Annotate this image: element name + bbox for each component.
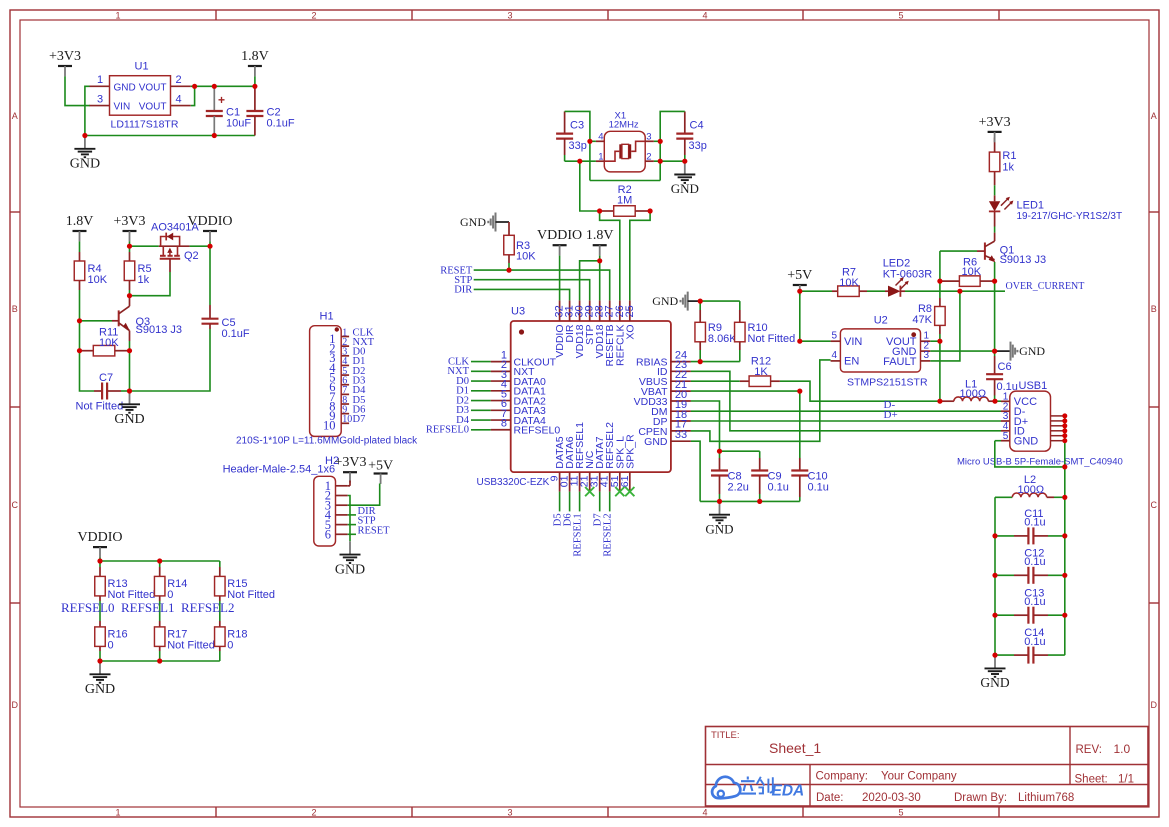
svg-text:210S-1*10P L=11.6MMGold-plated: 210S-1*10P L=11.6MMGold-plated black — [236, 436, 418, 447]
op-amp U3 USB3320C-EZK body — [477, 306, 671, 489]
capacitor C6 0.1u — [986, 351, 1018, 401]
USB1 shield pin 4 — [1051, 430, 1065, 432]
svg-text:1.8V: 1.8V — [241, 49, 269, 64]
wire GND33 down — [691, 441, 700, 501]
wire C4 top loop — [660, 111, 685, 180]
wire U1 VOUT rail — [191, 85, 255, 87]
node D3 (U3) — [456, 405, 469, 416]
U3 pin 20 (VDD33) — [634, 389, 691, 408]
junction dot 24 at (599.6,211) — [597, 208, 602, 213]
wire U3 pin 13 down — [599, 492, 601, 512]
svg-text:1k: 1k — [1002, 162, 1014, 174]
svg-text:REFSEL1: REFSEL1 — [121, 600, 174, 615]
junction dot 5 at (214.3,135.5) — [212, 133, 217, 138]
resistor R1 1k — [989, 138, 1016, 186]
svg-text:2: 2 — [311, 10, 316, 20]
junction dot 34 at (799.8,341.2) — [797, 339, 802, 344]
junction dot 20 at (660.2,141.3) — [658, 139, 663, 144]
wire VBUS to R12 — [691, 380, 740, 382]
wire GND2 out — [930, 350, 994, 352]
inductor L2 100 — [995, 474, 1065, 497]
svg-text:OVER_CURRENT: OVER_CURRENT — [1006, 281, 1085, 292]
U3 pin 11 (REFSEL1) — [569, 422, 587, 492]
resistor R3 10K — [504, 222, 536, 270]
svg-text:D: D — [12, 700, 19, 710]
node NXT (H1) — [353, 337, 375, 348]
svg-text:100Ω: 100Ω — [960, 388, 987, 400]
wire USB shield rail — [1064, 416, 1066, 655]
svg-text:+3V3: +3V3 — [49, 49, 81, 64]
svg-text:3: 3 — [507, 807, 512, 817]
junction dot 55 at (995,655.1) — [992, 653, 997, 658]
svg-text:0.1u: 0.1u — [1024, 556, 1045, 568]
node REFSEL1 (U3 bottom) — [573, 513, 584, 556]
wire DP line D+ — [691, 420, 1001, 422]
resistor R5 1k — [124, 246, 151, 296]
svg-text:+3V3: +3V3 — [334, 455, 366, 470]
USB1 pin 3 (D+) — [1001, 411, 1028, 428]
resistor R4 10K — [74, 252, 107, 290]
ground GND (C8) — [705, 501, 733, 536]
node D1 (H1) — [353, 356, 366, 367]
junction dot 6 at (79.5,320.8) — [77, 318, 82, 323]
wire +3V3 to U1 VIN — [65, 76, 90, 105]
capacitor C3 33p — [556, 111, 587, 161]
node NXT (U3) — [447, 366, 469, 377]
U3 pin 5 (DATA2) — [491, 388, 546, 407]
junction dot 54 at (1064.8,615.2) — [1062, 613, 1067, 618]
junction dot 14 at (159.7,561) — [157, 558, 162, 563]
junction dot 48 at (1064.8,497.3) — [1062, 495, 1067, 500]
resistor R18 0 — [215, 621, 248, 661]
junction dot 1 at (84.9,135.5) — [82, 133, 87, 138]
EasyEDA logo — [712, 777, 804, 800]
node OVER_CURRENT — [1006, 281, 1085, 292]
power +3V3 (R1) — [979, 115, 1011, 142]
U3 pin 32 (VDDIO) — [554, 300, 567, 357]
no-connect pin 16 — [625, 487, 634, 496]
svg-text:1: 1 — [115, 10, 120, 20]
svg-text:0.1u: 0.1u — [768, 482, 789, 494]
svg-text:3: 3 — [507, 10, 512, 20]
U3 pin 33 (GND) — [644, 429, 691, 448]
wire USB GND pin5 — [995, 441, 1065, 467]
crystal X1 12MHz body — [598, 111, 651, 172]
svg-text:C3: C3 — [570, 120, 584, 132]
node REFSEL0 (U3) — [426, 425, 469, 436]
wire VDDIO stem — [209, 241, 211, 246]
junction dot 28 at (799.8,391.1) — [797, 389, 802, 394]
junction dot 50 at (1064.8,535.9) — [1062, 533, 1067, 538]
svg-text:GND: GND — [980, 675, 1009, 690]
resistor R6 10K — [940, 256, 995, 286]
transistor Q2 AO3401A — [151, 221, 199, 261]
ground GND (R9, sideways) — [652, 292, 688, 311]
svg-text:1.8V: 1.8V — [586, 228, 614, 243]
wire 1.8V to R4 — [79, 241, 81, 252]
op-amp U1 LD1117S18TR body — [110, 61, 179, 131]
wire U3 pin 11 down — [579, 492, 581, 512]
svg-text:10: 10 — [323, 419, 336, 433]
resistor R8 47K — [912, 281, 945, 341]
capacitor C14 0.1u — [995, 627, 1065, 663]
svg-text:+5V: +5V — [368, 459, 393, 474]
wire crystal case loop — [590, 180, 660, 182]
U3 pin 6 (DATA3) — [491, 398, 546, 417]
node RESET (H2) — [358, 525, 391, 536]
svg-text:USB1: USB1 — [1019, 380, 1048, 392]
svg-text:GND: GND — [671, 181, 699, 196]
resistor R10 Not Fitted — [735, 301, 796, 362]
U3 pin 4 (DATA1) — [491, 379, 546, 398]
svg-text:VIN: VIN — [114, 102, 131, 113]
power +3V3 (R5) — [113, 214, 145, 241]
wire 1.8V to pin28 — [599, 256, 601, 301]
U2 pin 3 — [921, 350, 931, 361]
node REFSEL2 — [181, 600, 234, 615]
svg-text:Your Company: Your Company — [881, 771, 957, 783]
H2 pin 4 — [325, 508, 348, 522]
USB1 pin 2 (D-) — [1001, 401, 1026, 418]
node REFSEL0 — [61, 600, 114, 615]
svg-text:19-217/GHC-YR1S2/3T: 19-217/GHC-YR1S2/3T — [1017, 211, 1123, 222]
svg-text:10K: 10K — [99, 337, 119, 349]
wire DM line D- — [691, 410, 1001, 412]
svg-text:R1: R1 — [1002, 150, 1016, 162]
junction dot 21 at (579.8,161.2) — [577, 159, 582, 164]
junction dot 25 at (650.1,211) — [648, 208, 653, 213]
svg-text:1M: 1M — [617, 195, 632, 207]
X1 pin 3 stub — [645, 140, 654, 142]
H1 pin 9 — [329, 404, 349, 423]
power 1.8V (R4) — [66, 214, 94, 241]
svg-text:GND: GND — [652, 294, 678, 308]
wire Q1 emitter down — [994, 262, 996, 351]
svg-text:TITLE:: TITLE: — [711, 730, 740, 741]
svg-text:5: 5 — [898, 807, 903, 817]
svg-text:33p: 33p — [569, 140, 587, 152]
X1 pin 2 stub — [645, 160, 654, 162]
wire C8 ground rail — [700, 500, 800, 502]
svg-text:33: 33 — [675, 429, 687, 441]
junction dot 9 at (210,246.2) — [207, 244, 212, 249]
junction dot 44 at (1064.8,430.8) — [1062, 428, 1067, 433]
svg-text:C: C — [12, 500, 19, 510]
U3 pin 30 (VDD18) — [574, 300, 587, 358]
power +3V3 (H2) — [334, 455, 366, 483]
svg-text:Lithium768: Lithium768 — [1018, 792, 1074, 804]
wire Q2 drain to VDDIO col — [190, 245, 210, 247]
svg-text:XO: XO — [624, 325, 636, 340]
svg-text:5: 5 — [831, 330, 837, 341]
junction dot 45 at (1064.8,435.7) — [1062, 433, 1067, 438]
junction dot 33 at (959.9,291.2) — [957, 289, 962, 294]
node D5 (U3 bottom) — [553, 513, 564, 526]
node D2 (U3) — [456, 395, 469, 406]
wire VDDIO stem to rail — [99, 558, 101, 562]
wire U1 pin4 riser — [191, 86, 195, 105]
title block — [706, 727, 1149, 807]
H1 pin 1 — [329, 327, 349, 346]
junction dot 8 at (129.5,246.2) — [127, 244, 132, 249]
wire DIR line — [474, 289, 570, 300]
svg-text:12MHz: 12MHz — [609, 119, 639, 130]
svg-text:C7: C7 — [99, 372, 113, 384]
junction dot 42 at (1064.8,420.9) — [1062, 418, 1067, 423]
svg-text:+3V3: +3V3 — [979, 115, 1011, 130]
wire H2 pin2 to GND — [348, 496, 350, 542]
wire RESET line — [474, 270, 610, 300]
wire D4 to U3 pin 7 — [471, 419, 491, 421]
svg-text:C4: C4 — [690, 120, 704, 132]
ground GND (Q3) — [114, 391, 144, 427]
wire CPEN to EN — [691, 360, 831, 441]
node DIR (H2) — [358, 506, 376, 517]
svg-text:Header-Male-2.54_1x6: Header-Male-2.54_1x6 — [223, 464, 336, 476]
capacitor C13 0.1u — [995, 587, 1065, 623]
U3 pin 28 (VDD18) — [594, 300, 607, 358]
svg-text:10K: 10K — [516, 251, 536, 263]
svg-text:REFSEL2: REFSEL2 — [603, 513, 614, 556]
svg-text:REFSEL0: REFSEL0 — [426, 425, 469, 436]
U3 pin 22 (VBUS) — [639, 369, 691, 388]
svg-text:Sheet:: Sheet: — [1075, 774, 1108, 786]
wire X1 pin1 line — [565, 160, 596, 162]
capacitor C2 0.1uF — [246, 86, 295, 135]
wire VDDIO to pin32 — [559, 256, 561, 301]
X1 pin 1 stub — [596, 160, 604, 162]
wire pin1 branch to R2 — [580, 161, 600, 211]
junction dot 7 at (79.5,350.7) — [77, 348, 82, 353]
svg-text:REV:: REV: — [1076, 744, 1102, 756]
H1 pin 7 — [329, 385, 349, 404]
node D7 (U3 bottom) — [593, 513, 604, 526]
svg-text:GND: GND — [644, 436, 668, 448]
U1 pin 2 — [171, 74, 191, 86]
U3 pin 13 (DATA7) — [589, 436, 607, 491]
svg-text:GND: GND — [1014, 436, 1039, 448]
wire R4 to base junction — [79, 290, 81, 321]
wire U1 GND pin1 down to ground rail — [85, 86, 90, 135]
junction dot 11 at (129.5,350.7) — [127, 348, 132, 353]
U3 pin 9 (DATA5) — [549, 436, 567, 491]
U3 pin 23 (ID) — [657, 359, 691, 378]
junction dot 39 at (994.6,281.1) — [992, 279, 997, 284]
svg-text:REFSEL2: REFSEL2 — [181, 600, 234, 615]
svg-text:REFSEL0: REFSEL0 — [61, 600, 114, 615]
wire C8-C9 top link — [720, 450, 760, 452]
svg-text:1.0: 1.0 — [1114, 742, 1131, 756]
X1 pin 4 stub — [596, 140, 604, 142]
node REFSEL2 (U3 bottom) — [603, 513, 614, 556]
svg-text:D7: D7 — [353, 414, 366, 425]
U3 pin 12 (N/C) — [579, 450, 597, 491]
wire R13 to lower resistor — [99, 601, 101, 621]
wire U3 pin 9 down — [559, 492, 561, 512]
U3 pin 2 (NXT) — [491, 359, 535, 378]
svg-text:6: 6 — [325, 528, 331, 542]
svg-text:VOUT: VOUT — [139, 102, 167, 113]
svg-text:Not Fitted: Not Fitted — [167, 640, 215, 652]
USB1 shield pin 2 — [1051, 420, 1065, 422]
wire U3 pin 10 down — [569, 492, 571, 512]
svg-text:LED1: LED1 — [1017, 200, 1045, 212]
svg-text:REFSEL1: REFSEL1 — [573, 513, 584, 556]
svg-text:+: + — [218, 93, 225, 107]
svg-text:0.1u: 0.1u — [1024, 517, 1045, 529]
wire +5V column — [799, 289, 801, 341]
H2 value label — [223, 464, 336, 476]
svg-text:100Ω: 100Ω — [1018, 484, 1045, 496]
capacitor C4 33p — [676, 111, 707, 161]
U3 pin 15 (SPK_L) — [609, 436, 627, 492]
svg-text:1/1: 1/1 — [1118, 774, 1134, 786]
U1 pin 3 — [90, 93, 110, 105]
svg-text:SPK_R: SPK_R — [624, 434, 636, 469]
wire H2 pin1 to +3V3 — [348, 481, 350, 486]
U3 pin 16 (SPK_R) — [619, 434, 637, 492]
node D1 (U3) — [456, 386, 469, 397]
svg-text:RESET: RESET — [358, 525, 391, 536]
svg-text:D+: D+ — [884, 409, 898, 421]
wire C11 ladder left rail — [994, 497, 996, 655]
H2 pin 1 — [325, 479, 348, 493]
U3 pin 10 (DATA6) — [559, 436, 577, 491]
wire R8 col down — [939, 251, 941, 281]
transistor Q3 S9013 — [112, 296, 182, 341]
wire CLK to U3 pin 1 — [471, 361, 491, 363]
U3 pin 18 (DP) — [653, 409, 691, 428]
U3 pin 21 (VBAT) — [641, 379, 691, 398]
svg-text:REFSEL0: REFSEL0 — [514, 425, 561, 437]
wire X1 pin3 — [654, 140, 660, 142]
wire X1 pin4 — [590, 140, 596, 142]
svg-text:Q2: Q2 — [184, 250, 199, 262]
node D+ — [884, 409, 898, 421]
svg-text:GND: GND — [460, 215, 486, 229]
svg-text:GND: GND — [335, 562, 365, 577]
wire Q1 base to R8 col — [940, 250, 977, 252]
svg-text:0: 0 — [108, 640, 114, 652]
node D0 (U3) — [456, 376, 469, 387]
svg-text:1.8V: 1.8V — [66, 214, 94, 229]
wire D1 to U3 pin 4 — [471, 390, 491, 392]
svg-text:A: A — [1151, 111, 1157, 121]
capacitor C8 2.2u — [711, 451, 749, 501]
wire OC to R7 — [800, 290, 832, 292]
junction dot 17 at (509,270.1) — [506, 268, 511, 273]
U2 pin 4 — [831, 350, 841, 361]
svg-text:C6: C6 — [998, 361, 1012, 373]
U2 pin 2 — [921, 340, 931, 351]
connector USB1 body — [957, 380, 1123, 468]
junction dot 32 at (799.8,291.2) — [797, 289, 802, 294]
junction dot 51 at (995,575.3) — [992, 573, 997, 578]
node D6 (H1) — [353, 404, 366, 415]
junction dot 49 at (995,535.9) — [992, 533, 997, 538]
ground GND (U2, sideways) — [995, 342, 1046, 361]
diode LED1 19-217/GHC-YR1S2/3T — [989, 195, 1122, 226]
svg-text:0.1u: 0.1u — [1024, 596, 1045, 608]
U3 pin 25 (XO) — [624, 300, 637, 339]
svg-text:S9013 J3: S9013 J3 — [136, 324, 182, 336]
wire 1.8V power stem — [254, 76, 256, 86]
inductor L1 100 — [940, 378, 995, 401]
wire R9/R10 top rail — [700, 300, 740, 302]
svg-text:5: 5 — [1003, 431, 1009, 442]
svg-text:EN: EN — [844, 356, 859, 368]
wire VOUT out — [930, 340, 940, 342]
svg-text:KT-0603R: KT-0603R — [883, 269, 933, 281]
H1 pin 8 — [329, 395, 349, 414]
svg-text:A: A — [12, 111, 18, 121]
power 1.8V (U3) — [586, 228, 614, 255]
svg-text:U2: U2 — [874, 315, 888, 327]
junction dot 2 at (194.6,86.3) — [192, 84, 197, 89]
svg-text:EDA: EDA — [772, 783, 805, 800]
resistor R9 8.06K — [695, 301, 737, 362]
svg-text:GND: GND — [114, 82, 136, 93]
junction dot 41 at (1064.8,415.9) — [1062, 413, 1067, 418]
H2 pin 3 — [325, 498, 348, 512]
junction dot 3 at (214.3,86.3) — [212, 84, 217, 89]
svg-text:25: 25 — [624, 305, 636, 317]
resistor R13 Not Fitted — [95, 561, 155, 601]
wire R14 to lower resistor — [159, 601, 161, 621]
svg-text:1k: 1k — [138, 274, 150, 286]
svg-text:B: B — [1151, 304, 1157, 314]
wire VBAT line — [691, 390, 800, 392]
svg-text:Not Fitted: Not Fitted — [748, 333, 796, 345]
junction dot 47 at (1064.8,466.9) — [1062, 464, 1067, 469]
USB1 pin 5 (GND) — [1001, 431, 1038, 448]
wire R2 right to XO — [630, 211, 650, 300]
svg-text:Date:: Date: — [816, 792, 844, 804]
svg-text:3: 3 — [97, 93, 103, 105]
capacitor C10 0.1u — [791, 391, 829, 501]
node DIR — [454, 285, 472, 296]
svg-text:0.1u: 0.1u — [808, 482, 829, 494]
svg-text:3: 3 — [924, 350, 930, 361]
USB1 shield pin 6 — [1051, 440, 1065, 442]
wire bottom rail to C5 — [130, 329, 211, 391]
wire emitter col to bottom rail — [129, 351, 131, 391]
svg-text:0: 0 — [227, 640, 233, 652]
svg-text:+5V: +5V — [787, 268, 812, 283]
svg-text:U1: U1 — [135, 61, 149, 73]
H1 pin 4 — [329, 356, 349, 375]
node D7 (H1) — [353, 414, 366, 425]
USB1 shield pin 3 — [1051, 425, 1065, 427]
USB1 shield pin 1 — [1051, 415, 1065, 417]
junction dot 43 at (1064.8,425.8) — [1062, 423, 1067, 428]
node D6 (U3 bottom) — [563, 513, 574, 526]
power 1.8V (U1 output) — [241, 49, 269, 76]
power VDDIO (C5) — [187, 214, 232, 241]
svg-text:GND: GND — [70, 157, 100, 172]
U1 pin 1 — [90, 74, 110, 86]
power +5V (H2) — [368, 459, 393, 484]
junction dot 18 at (599.7,260.8) — [597, 258, 602, 263]
capacitor C1 10uF — [206, 86, 252, 135]
wire gnd to R3 — [496, 221, 510, 223]
svg-text:DIR: DIR — [454, 285, 472, 296]
U2 pin 1 — [921, 330, 931, 341]
junction dot 10 at (129.5,295.7) — [127, 293, 132, 298]
svg-text:GND: GND — [114, 412, 144, 427]
wire R2 left to REFCLK — [600, 211, 620, 300]
svg-text:Drawn By:: Drawn By: — [954, 792, 1007, 804]
